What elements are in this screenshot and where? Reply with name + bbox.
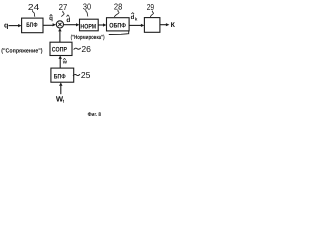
wire НОРМ to ОБПФ xyxy=(98,24,103,26)
svg-text:("Сопряжение"): ("Сопряжение") xyxy=(1,47,42,54)
svg-text:w: w xyxy=(62,60,68,66)
leader squiggle to НОРМ 30 xyxy=(86,10,88,17)
svg-text:28: 28 xyxy=(114,1,123,11)
svg-text:ОБПФ: ОБПФ xyxy=(109,23,126,30)
wire БПФ25 up to СОПР xyxy=(59,59,61,69)
arrowhead up into БПФ25 bottom xyxy=(59,82,62,86)
tilde 26 xyxy=(74,48,81,50)
svg-text:НОРМ: НОРМ xyxy=(80,24,96,31)
svg-text:25: 25 xyxy=(81,70,91,80)
svg-text:СОПР: СОПР xyxy=(52,47,68,54)
svg-text:БПФ: БПФ xyxy=(26,22,37,29)
svg-text:К: К xyxy=(171,22,176,29)
svg-text:Фиг. 8: Фиг. 8 xyxy=(88,112,101,118)
block U24 БПФ xyxy=(22,18,43,33)
svg-text:27: 27 xyxy=(59,2,68,12)
block U30 НОРМ xyxy=(80,19,99,31)
wire ОБПФ to block 29 xyxy=(129,24,141,26)
leader squiggle to БПФ24 xyxy=(32,10,35,16)
arrowhead up into multiplier bottom xyxy=(58,28,61,31)
block U29 empty xyxy=(144,18,160,33)
block U26 СОПР xyxy=(50,42,72,55)
wire block29 to K output xyxy=(160,24,166,26)
wire multiplier to НОРМ xyxy=(64,24,77,26)
svg-text:24: 24 xyxy=(28,2,40,12)
leader squiggle to multiplier 27 xyxy=(62,11,65,17)
wire СОПР up to multiplier xyxy=(59,31,61,42)
block U25 БПФ xyxy=(51,68,74,82)
arrowhead to K output xyxy=(166,23,170,26)
arrowhead into ОБПФ xyxy=(103,23,107,26)
svg-text:d: d xyxy=(66,17,70,24)
svg-text:БПФ: БПФ xyxy=(54,74,66,81)
block U28 ОБПФ xyxy=(107,18,130,31)
tilde 25 xyxy=(73,74,80,76)
svg-text:26: 26 xyxy=(81,44,91,54)
svg-text:29: 29 xyxy=(147,2,155,12)
wire Wt input up to БПФ25 xyxy=(60,86,62,94)
caption leader dash to ОБПФ xyxy=(109,31,129,34)
svg-text:q: q xyxy=(4,20,8,29)
wire q input xyxy=(9,25,19,27)
leader squiggle to block29 xyxy=(150,11,153,17)
multiplier X1 circle xyxy=(56,21,63,28)
arrowhead into НОРМ xyxy=(76,23,80,26)
wire БПФ24 to multiplier xyxy=(43,24,53,26)
arrowhead into block29 xyxy=(141,24,145,27)
arrowhead into БПФ24 xyxy=(18,24,22,27)
arrowhead up into СОПР bottom xyxy=(59,56,62,59)
svg-text:("Нормировка"): ("Нормировка") xyxy=(71,34,105,41)
svg-text:30: 30 xyxy=(83,1,91,11)
leader squiggle to ОБПФ 28 xyxy=(114,10,119,17)
arrowhead into multiplier left xyxy=(53,23,57,26)
multiplier x symbol xyxy=(58,23,61,26)
